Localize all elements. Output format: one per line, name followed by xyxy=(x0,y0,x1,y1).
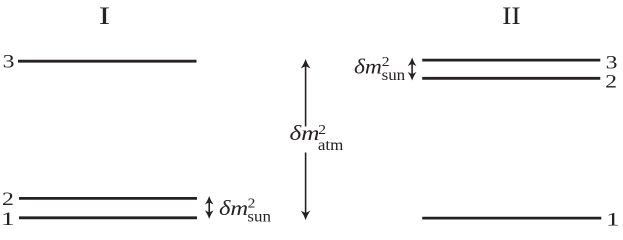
header I (left scheme title) xyxy=(99,2,111,30)
svg-text:δm: δm xyxy=(219,197,248,220)
label delta-m^2_sun (left) xyxy=(219,196,271,225)
label delta-m^2_atm (center) xyxy=(290,122,344,154)
double arrow dm2sun (right, between levels 3 and 2) xyxy=(409,59,415,79)
svg-text:1: 1 xyxy=(606,210,620,231)
double arrow dm2atm (center, between level 3 and level 1) xyxy=(302,60,309,218)
level line 3 (left) xyxy=(18,60,197,63)
label delta-m^2_sun (right) xyxy=(354,55,405,84)
level line 1 (left) xyxy=(19,216,197,219)
svg-text:δm: δm xyxy=(290,122,320,146)
svg-text:δm: δm xyxy=(354,55,382,79)
svg-text:3: 3 xyxy=(3,51,15,72)
level line 1 (right) xyxy=(422,217,601,220)
svg-text:atm: atm xyxy=(318,135,344,153)
header II (right scheme title) xyxy=(502,1,521,29)
svg-text:2: 2 xyxy=(605,71,617,92)
svg-text:2: 2 xyxy=(2,188,14,209)
label 1 (left) xyxy=(1,209,15,230)
svg-text:sun: sun xyxy=(247,207,271,225)
svg-text:sun: sun xyxy=(382,65,406,83)
level line 2 (right) xyxy=(422,77,600,80)
label 1 (right) xyxy=(606,210,620,231)
level line 2 (left) xyxy=(19,197,197,200)
level line 3 (right) xyxy=(422,59,600,62)
label 3 (right) xyxy=(606,52,618,73)
svg-text:I: I xyxy=(99,2,111,30)
svg-text:1: 1 xyxy=(1,209,15,230)
label 2 (right) xyxy=(605,71,617,92)
label 3 (left) xyxy=(3,51,15,72)
svg-text:II: II xyxy=(502,1,521,29)
label 2 (left) xyxy=(2,188,14,209)
double arrow dm2sun (left, between levels 1 and 2) xyxy=(206,197,212,217)
